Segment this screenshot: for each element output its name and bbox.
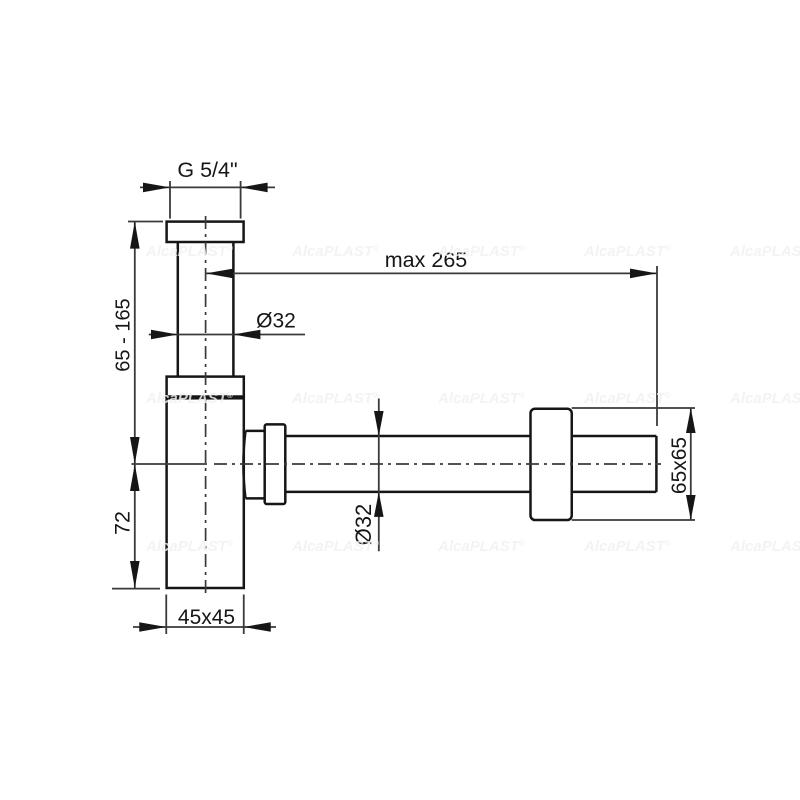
outlet pipe end [655,436,658,492]
dimension G 5/4: dimension line [140,186,275,188]
svg-text:AlcaPLAST®: AlcaPLAST® [729,390,800,407]
svg-text:AlcaPLAST®: AlcaPLAST® [437,243,525,260]
svg-text:65x65: 65x65 [668,437,691,494]
inlet pipe right wall [232,242,235,377]
dimension 45x45: dimension line [133,626,276,628]
outlet ring nut [265,424,286,504]
svg-text:AlcaPLAST®: AlcaPLAST® [583,243,671,260]
svg-text:65 - 165: 65 - 165 [113,298,135,371]
svg-text:AlcaPLAST®: AlcaPLAST® [583,538,671,555]
dimension 45x45: left arrow [139,622,166,632]
svg-text:AlcaPLAST®: AlcaPLAST® [291,538,379,555]
svg-text:AlcaPLAST®: AlcaPLAST® [291,390,379,407]
svg-text:AlcaPLAST®: AlcaPLAST® [729,243,800,260]
dimension 65x65: top extension line [572,407,695,409]
dimension 72: dimension line [134,464,136,588]
vertical centerline of inlet pipe [205,216,207,594]
dimension outlet diameter 32: bottom arrow [374,492,384,517]
cup body [167,398,244,588]
outlet pipe bottom wall (left of escutcheon) [285,491,530,494]
dimension G 5/4: right arrow [241,183,268,193]
wall escutcheon 65x65 [531,409,572,520]
dimension 65-165: middle tick [132,463,208,465]
inlet pipe left wall [177,242,180,377]
dimension 72: top arrow [130,464,140,491]
dimension 65-165: top arrow [130,222,140,249]
dimension inlet diameter 32: right arrow [233,330,260,340]
svg-text:AlcaPLAST®: AlcaPLAST® [583,390,671,407]
dimension 65-165: top tick [128,221,163,223]
dimension 65-165: dimension line [134,222,136,464]
svg-text:AlcaPLAST®: AlcaPLAST® [437,390,525,407]
svg-text:72: 72 [111,511,135,535]
dimension max 265: right arrow [630,269,657,279]
dimension 45x45: left extension line [165,595,167,635]
dimension 65x65: bottom arrow [686,495,696,520]
top nut flange [167,222,244,242]
dimension max 265: dimension line [206,272,657,274]
dimension 65x65: top arrow [686,408,696,433]
dimension 65-165: bottom arrow [130,437,140,464]
svg-text:AlcaPLAST®: AlcaPLAST® [291,243,379,260]
dimension outlet diameter 32: top arrow [374,411,384,436]
dimension inlet diameter 32: left arrow [151,330,178,340]
dimension 65x65: bottom extension line [572,519,695,521]
dimension max 265: left arrow [206,269,233,279]
dimension 65x65: dimension line [690,408,692,520]
svg-text:AlcaPLAST®: AlcaPLAST® [145,243,233,260]
dimension 45x45: right arrow [244,622,271,632]
dimension inlet diameter 32: dimension line [149,334,305,336]
watermark row 2 [145,390,800,407]
dimension 45x45: right extension line [243,595,245,635]
dimension G 5/4: extension lines [169,181,171,219]
svg-text:45x45: 45x45 [178,606,235,629]
dimension 72: bottom arrow [130,561,140,588]
outlet pipe top wall (left of escutcheon) [285,435,530,438]
watermark row 1 [145,243,800,260]
watermark row 3 [145,538,800,555]
horizontal centerline of outlet pipe [214,463,661,465]
dimension G 5/4: left arrow [143,183,170,193]
outlet pipe bottom wall (right of escutcheon) [572,491,657,494]
svg-text:AlcaPLAST®: AlcaPLAST® [437,538,525,555]
svg-text:Ø32: Ø32 [256,310,296,333]
dimension max 265: right extension line [656,266,658,426]
dimension outlet diameter 32: dimension line [378,399,380,552]
outlet pipe top wall (right of escutcheon) [572,435,657,438]
body top nut [167,377,244,397]
outlet stub with curved joint [243,431,264,499]
svg-text:AlcaPLAST®: AlcaPLAST® [145,538,233,555]
svg-text:G 5/4": G 5/4" [177,158,237,182]
svg-text:AlcaPLAST®: AlcaPLAST® [729,538,800,555]
svg-text:AlcaPLAST®: AlcaPLAST® [145,390,233,407]
dimension 72: bottom tick [112,588,160,590]
